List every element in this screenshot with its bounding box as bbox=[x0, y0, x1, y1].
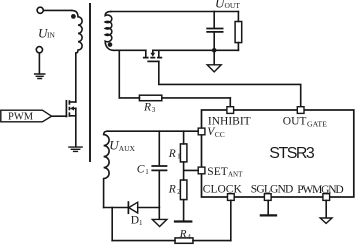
transformer T1 primary winding bbox=[72, 10, 83, 53]
wire bbox=[43, 9, 71, 11]
capacitor Cout plates bbox=[207, 29, 222, 32]
label SET_ANT bbox=[207, 166, 243, 179]
resistor Rout body bbox=[235, 22, 242, 43]
wire (aux bottom to R4 line) bbox=[111, 208, 113, 241]
pin OUT_GATE bbox=[297, 107, 304, 114]
svg-text:C: C bbox=[137, 163, 145, 175]
wire (aux bottom to D1) bbox=[104, 207, 128, 209]
wire (PWM to Q1 gate) bbox=[52, 115, 67, 117]
wire (Q2 gate to OUT_GATE pin) bbox=[159, 61, 301, 106]
diode D1 cathode bar bbox=[127, 202, 129, 213]
diode D1 triangle bbox=[129, 202, 138, 213]
resistor R1 top lead bbox=[183, 131, 185, 144]
resistor R1 body bbox=[180, 144, 187, 162]
svg-text:R: R bbox=[143, 101, 151, 113]
transistor Q1 channel segments bbox=[68, 100, 70, 116]
label CLOCK bbox=[203, 184, 243, 196]
capacitor C1 plates bbox=[152, 166, 166, 170]
wire (Q1 source to ground) bbox=[75, 108, 77, 146]
wire (R4 to CLOCK pin) bbox=[230, 200, 232, 240]
transistor Q2 source stub bbox=[145, 50, 147, 57]
label PWMGND bbox=[297, 184, 344, 196]
resistor R3 leads bbox=[119, 97, 230, 99]
svg-text:1: 1 bbox=[139, 219, 143, 227]
label SGLGND bbox=[251, 184, 293, 196]
capacitor C1 bottom lead bbox=[158, 171, 160, 208]
svg-text:PWMGND: PWMGND bbox=[297, 184, 344, 196]
svg-text:4: 4 bbox=[187, 233, 191, 241]
transformer T1 auxiliary winding bbox=[104, 131, 110, 207]
resistor R4 body bbox=[175, 238, 193, 243]
wire (secondary top rail) bbox=[111, 11, 239, 13]
label R4 bbox=[179, 228, 192, 241]
svg-text:D: D bbox=[131, 215, 139, 227]
svg-text:CLOCK: CLOCK bbox=[203, 184, 243, 196]
wire (Q2 drain rail) bbox=[153, 49, 239, 51]
wire (R1 to R2, SET tee) bbox=[184, 162, 199, 180]
label INHIBIT bbox=[208, 116, 251, 128]
svg-text:1: 1 bbox=[145, 168, 149, 176]
svg-text:OUT: OUT bbox=[283, 116, 307, 128]
svg-text:OUT: OUT bbox=[225, 1, 241, 10]
svg-text:AUX: AUX bbox=[119, 144, 136, 153]
resistor R2 bottom lead bbox=[183, 200, 185, 221]
primary polarity dot bbox=[71, 14, 76, 19]
svg-text:IN: IN bbox=[47, 31, 55, 40]
svg-text:PWM: PWM bbox=[8, 111, 34, 122]
capacitor Cout bottom lead bbox=[213, 32, 215, 50]
svg-text:SGLGND: SGLGND bbox=[251, 184, 293, 196]
svg-text:3: 3 bbox=[152, 106, 156, 114]
label U_OUT bbox=[215, 0, 240, 11]
svg-text:SET: SET bbox=[207, 166, 227, 178]
ground (PWMGND) bbox=[325, 200, 327, 217]
pin SGLGND bbox=[264, 194, 271, 201]
ground (input) bbox=[35, 74, 45, 79]
svg-text:R: R bbox=[168, 148, 176, 160]
label R2 bbox=[168, 183, 181, 196]
pin INHIBIT bbox=[227, 107, 234, 114]
transistor Q1 gate bar bbox=[65, 101, 67, 117]
PWM block bbox=[1, 110, 52, 122]
svg-text:CC: CC bbox=[215, 130, 225, 139]
pin CLOCK bbox=[228, 194, 235, 201]
ground (Q1 source) bbox=[69, 147, 82, 151]
capacitor C1 top lead bbox=[158, 131, 160, 166]
label U_IN bbox=[38, 25, 55, 40]
capacitor Cout top lead bbox=[213, 12, 215, 29]
svg-text:2: 2 bbox=[177, 188, 181, 196]
wire (R3 to INHIBIT pin) bbox=[229, 98, 231, 107]
label R3 bbox=[143, 101, 156, 114]
ground (R2, signal) bbox=[175, 220, 191, 222]
pin SET_ANT bbox=[198, 167, 205, 174]
svg-text:R: R bbox=[168, 183, 176, 195]
wire (secondary to R3) bbox=[118, 50, 120, 98]
input terminal (top) bbox=[37, 7, 43, 13]
svg-text:STSR3: STSR3 bbox=[269, 145, 315, 162]
svg-text:R: R bbox=[179, 228, 187, 240]
wire (primary to Q1 drain) bbox=[75, 53, 77, 102]
pin VCC bbox=[198, 128, 205, 135]
secondary polarity dot bbox=[108, 42, 113, 47]
pin PWMGND bbox=[323, 194, 330, 201]
transistor Q2 channel contact bars bbox=[143, 57, 162, 59]
wire (Vcc rail) bbox=[107, 130, 198, 132]
label C1 bbox=[137, 163, 149, 176]
input terminal (bottom) bbox=[36, 47, 42, 53]
transistor Q1 drain stub bbox=[69, 101, 75, 103]
label R1 bbox=[168, 148, 181, 161]
transistor Q2 gate bar bbox=[148, 60, 159, 62]
resistor R3 body bbox=[139, 95, 161, 101]
svg-text:GATE: GATE bbox=[307, 119, 327, 128]
ground (output) bbox=[213, 50, 215, 64]
svg-text:1: 1 bbox=[177, 153, 181, 161]
resistor Rout leads bbox=[237, 12, 239, 51]
transformer core bbox=[89, 4, 91, 161]
label D1 bbox=[131, 215, 143, 228]
wire (D1 anode to C1 node) bbox=[138, 207, 160, 209]
transistor Q2 drain stub bbox=[158, 50, 160, 57]
transformer T1 secondary winding bbox=[105, 12, 113, 51]
label OUT_GATE bbox=[283, 116, 327, 129]
resistor R2 body bbox=[180, 180, 187, 200]
label PWM bbox=[8, 111, 34, 122]
ground (aux return) bbox=[158, 208, 160, 220]
transistor Q2 body arrow bbox=[152, 50, 154, 52]
IC U1 STSR3 box bbox=[202, 110, 354, 197]
transistor Q1 body stub and arrow bbox=[74, 107, 76, 109]
svg-text:ANT: ANT bbox=[228, 171, 243, 179]
output junction bbox=[212, 48, 217, 53]
label VCC bbox=[207, 126, 225, 139]
wire bbox=[38, 53, 40, 74]
label STSR3 bbox=[269, 145, 315, 162]
wire (secondary bottom to Q2) bbox=[114, 49, 146, 51]
label U_AUX bbox=[109, 138, 135, 154]
ground (SGLGND) bbox=[267, 200, 269, 214]
resistor R4 leads bbox=[112, 240, 231, 242]
transistor Q1 source stub bbox=[69, 115, 75, 117]
